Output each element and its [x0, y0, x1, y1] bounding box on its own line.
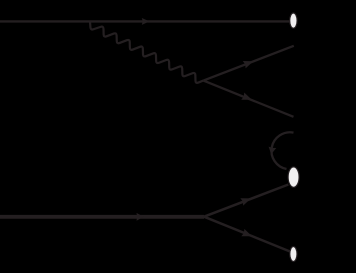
wire scattered quark lower line	[203, 81, 293, 117]
wire scattered quark upper line	[203, 46, 293, 81]
wire incoming lepton line (top)	[0, 20, 290, 22]
arrowhead on lower remnant line	[241, 229, 253, 240]
arrowhead on curved arrow	[267, 147, 276, 155]
curved arrow into final-state blob	[271, 132, 293, 169]
blob hadronic final state (middle right)	[288, 167, 299, 187]
arrowhead on upper remnant line	[240, 195, 252, 206]
wire incoming hadron line (bottom)	[0, 215, 204, 219]
photon wavy line	[90, 21, 203, 82]
blob scattered lepton (top right)	[290, 13, 297, 28]
arrowhead on incoming hadron line	[137, 213, 144, 221]
blob hadron remnant (bottom right)	[290, 247, 297, 262]
arrowhead on upper quark line	[243, 58, 255, 69]
arrowhead on incoming lepton line	[142, 18, 150, 25]
wire hadron remnant upper line	[204, 185, 288, 217]
arrowhead on lower quark line	[241, 92, 253, 103]
wire hadron remnant lower line	[204, 217, 290, 252]
